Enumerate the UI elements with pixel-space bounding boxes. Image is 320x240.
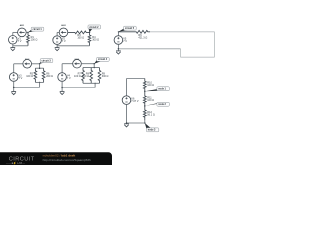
voltage source V4 [58, 73, 67, 82]
wire return rail c4 [62, 87, 95, 89]
voltage source V2 [53, 36, 62, 45]
voltage source V1 [9, 36, 18, 45]
resistor R3 [68, 31, 90, 34]
wire bottom rail c2 [57, 45, 89, 47]
label V3 [19, 75, 23, 81]
svg-text:——■⚡LAB—: ——■⚡LAB— [6, 161, 25, 165]
label R8 [82, 72, 89, 78]
svg-text:node 2: node 2 [158, 103, 166, 106]
svg-text:300 Ω: 300 Ω [102, 75, 109, 78]
junction c6 gnd [126, 122, 128, 124]
junction c3 gnd [13, 87, 15, 89]
ground c2 [55, 48, 60, 51]
label R3 [77, 34, 84, 40]
svg-text:circuit 1: circuit 1 [33, 28, 43, 31]
svg-text:circuit 2: circuit 2 [89, 26, 99, 29]
svg-text:421.3 Ω: 421.3 Ω [138, 37, 147, 40]
svg-text:200 Ω: 200 Ω [46, 75, 53, 78]
flag node 1 [145, 87, 169, 91]
label V4 [67, 75, 71, 81]
label V5 [123, 38, 127, 44]
wire V6 bottom [126, 104, 128, 123]
svg-text:100 Ω: 100 Ω [31, 39, 38, 42]
wire bottom rail c4 [83, 82, 100, 84]
resistor R11 [143, 91, 146, 106]
svg-text:100 Ω: 100 Ω [26, 75, 33, 78]
resistor R13 [118, 30, 150, 33]
voltage source V6 [122, 96, 131, 105]
resistor R4 [88, 32, 91, 45]
label R9 [102, 72, 109, 78]
ground c4 [60, 91, 65, 94]
flag circuit 4 [94, 57, 109, 63]
svg-text:100 Ω: 100 Ω [147, 84, 154, 87]
svg-text:node 3: node 3 [148, 129, 156, 132]
label V1 [18, 37, 22, 43]
label R12 [147, 111, 155, 117]
wire top rail c3 [35, 67, 43, 69]
junction c4 top [94, 67, 95, 68]
ground c5 [116, 51, 121, 54]
node circuit1 [27, 32, 29, 34]
wire bottom rail c6 [127, 122, 145, 124]
svg-text:7 V: 7 V [123, 40, 127, 43]
flag circuit 2 [88, 25, 101, 32]
junction c5 gnd [118, 48, 120, 50]
wire V4 top to rail [62, 64, 73, 73]
svg-text:7 V: 7 V [67, 77, 71, 80]
svg-text:circuit 3: circuit 3 [42, 60, 52, 63]
label I2 value [61, 24, 66, 27]
svg-text:A001: A001 [20, 24, 25, 27]
svg-text:56.1 Ω: 56.1 Ω [147, 113, 155, 116]
wire V3 bottom [13, 81, 15, 91]
label I4 value [74, 58, 79, 61]
svg-text:A002: A002 [61, 24, 66, 27]
resistor R12 [143, 106, 146, 121]
wire V5 bottom [117, 44, 119, 51]
wire I4 to node [81, 63, 94, 65]
wire top rail c4 [83, 67, 100, 69]
resistor R7 [82, 68, 85, 84]
svg-text:circuit 4: circuit 4 [98, 58, 108, 61]
voltage source V5 [114, 36, 123, 45]
svg-text:7 V: 7 V [18, 40, 22, 43]
label V6 [131, 98, 139, 104]
wire V2 top to rail [57, 32, 59, 35]
node circuit2 [89, 32, 91, 34]
wire loop up [180, 49, 182, 57]
svg-text:100 Ω: 100 Ω [77, 37, 84, 40]
flag node 2 [145, 102, 169, 106]
flag circuit 3 [40, 59, 53, 64]
svg-text:300 Ω: 300 Ω [92, 39, 99, 42]
resistor R5 [34, 68, 37, 82]
node circuit4 [93, 63, 95, 64]
resistor R10 [143, 79, 146, 92]
wire V6 top [127, 79, 145, 96]
label V2 [62, 38, 66, 44]
resistor R6 [42, 68, 45, 82]
wire loop top [150, 31, 215, 33]
wire V3 top to rail [14, 64, 23, 73]
svg-text:200 Ω: 200 Ω [82, 75, 89, 78]
watermark CircuitLab [0, 152, 112, 169]
label I3 value [25, 58, 30, 61]
svg-text:A003: A003 [25, 58, 30, 61]
wire drop c4 [94, 83, 96, 87]
svg-text:mjholden02 / lab1 draft: mjholden02 / lab1 draft [43, 153, 76, 157]
ground c6 [124, 124, 129, 127]
node1 c6 [144, 90, 146, 92]
node circuit5 [118, 31, 119, 32]
label R1 [31, 36, 38, 42]
resistor R8 [90, 68, 93, 84]
flag circuit 1 [28, 27, 44, 32]
label R10 [147, 82, 154, 88]
svg-text:circuit 5: circuit 5 [125, 27, 135, 30]
wire V4 bottom [61, 81, 63, 91]
svg-text:100 Ω: 100 Ω [74, 75, 81, 78]
junction c4 bottom [95, 83, 96, 84]
resistor R1 [27, 32, 30, 45]
wire loop right [214, 32, 216, 57]
voltage source V3 [9, 73, 18, 82]
node2 c6 [144, 105, 146, 107]
svg-text:7 V: 7 V [62, 40, 66, 43]
wire V2 bottom [56, 44, 58, 47]
svg-text:100 Ω: 100 Ω [147, 99, 154, 102]
wire I1 to node [26, 31, 28, 33]
junction c3 top [39, 67, 41, 69]
wire return rail c3 [14, 86, 40, 88]
flag node 3 [145, 123, 159, 132]
wire V5 top [117, 32, 119, 36]
wire I3 to node [32, 63, 40, 65]
current source I2 [59, 28, 68, 37]
svg-text:node 1: node 1 [158, 88, 166, 91]
junction c4 gnd [61, 87, 63, 89]
svg-text:http://circuitlab.com/cor5qaam: http://circuitlab.com/cor5qaamp53h [43, 158, 91, 162]
node circuit3 [39, 63, 41, 65]
wire node down c3 [39, 64, 41, 68]
wire chain bottom [144, 120, 146, 123]
wire return rail c5 [118, 48, 180, 50]
wire bottom rail c1 [13, 45, 28, 47]
junction c3 bottom [39, 82, 40, 83]
label I1 value [20, 24, 25, 27]
wire node down c4 [93, 64, 95, 68]
svg-text:7.07 V: 7.07 V [131, 100, 139, 103]
wire bottom rail c3 [35, 81, 43, 83]
wire V1 top to rail [13, 32, 18, 35]
current source I3 [23, 60, 32, 69]
wire loop bottom [181, 56, 215, 58]
svg-text:7 V: 7 V [19, 77, 23, 80]
resistor R9 [98, 68, 101, 84]
label R6 [46, 72, 53, 78]
wire drop c3 [39, 82, 41, 87]
label R7 [74, 72, 81, 78]
current source I4 [73, 59, 82, 68]
ground c3 [11, 92, 16, 95]
ground c1 [10, 48, 15, 51]
flag circuit 5 [118, 26, 136, 32]
label R4 [92, 36, 99, 42]
current source I1 [18, 28, 27, 37]
label R5 [26, 72, 33, 78]
wire V1 bottom [12, 44, 14, 48]
node3 c6 [144, 122, 146, 124]
label R13 [138, 34, 147, 40]
label R11 [147, 96, 154, 102]
